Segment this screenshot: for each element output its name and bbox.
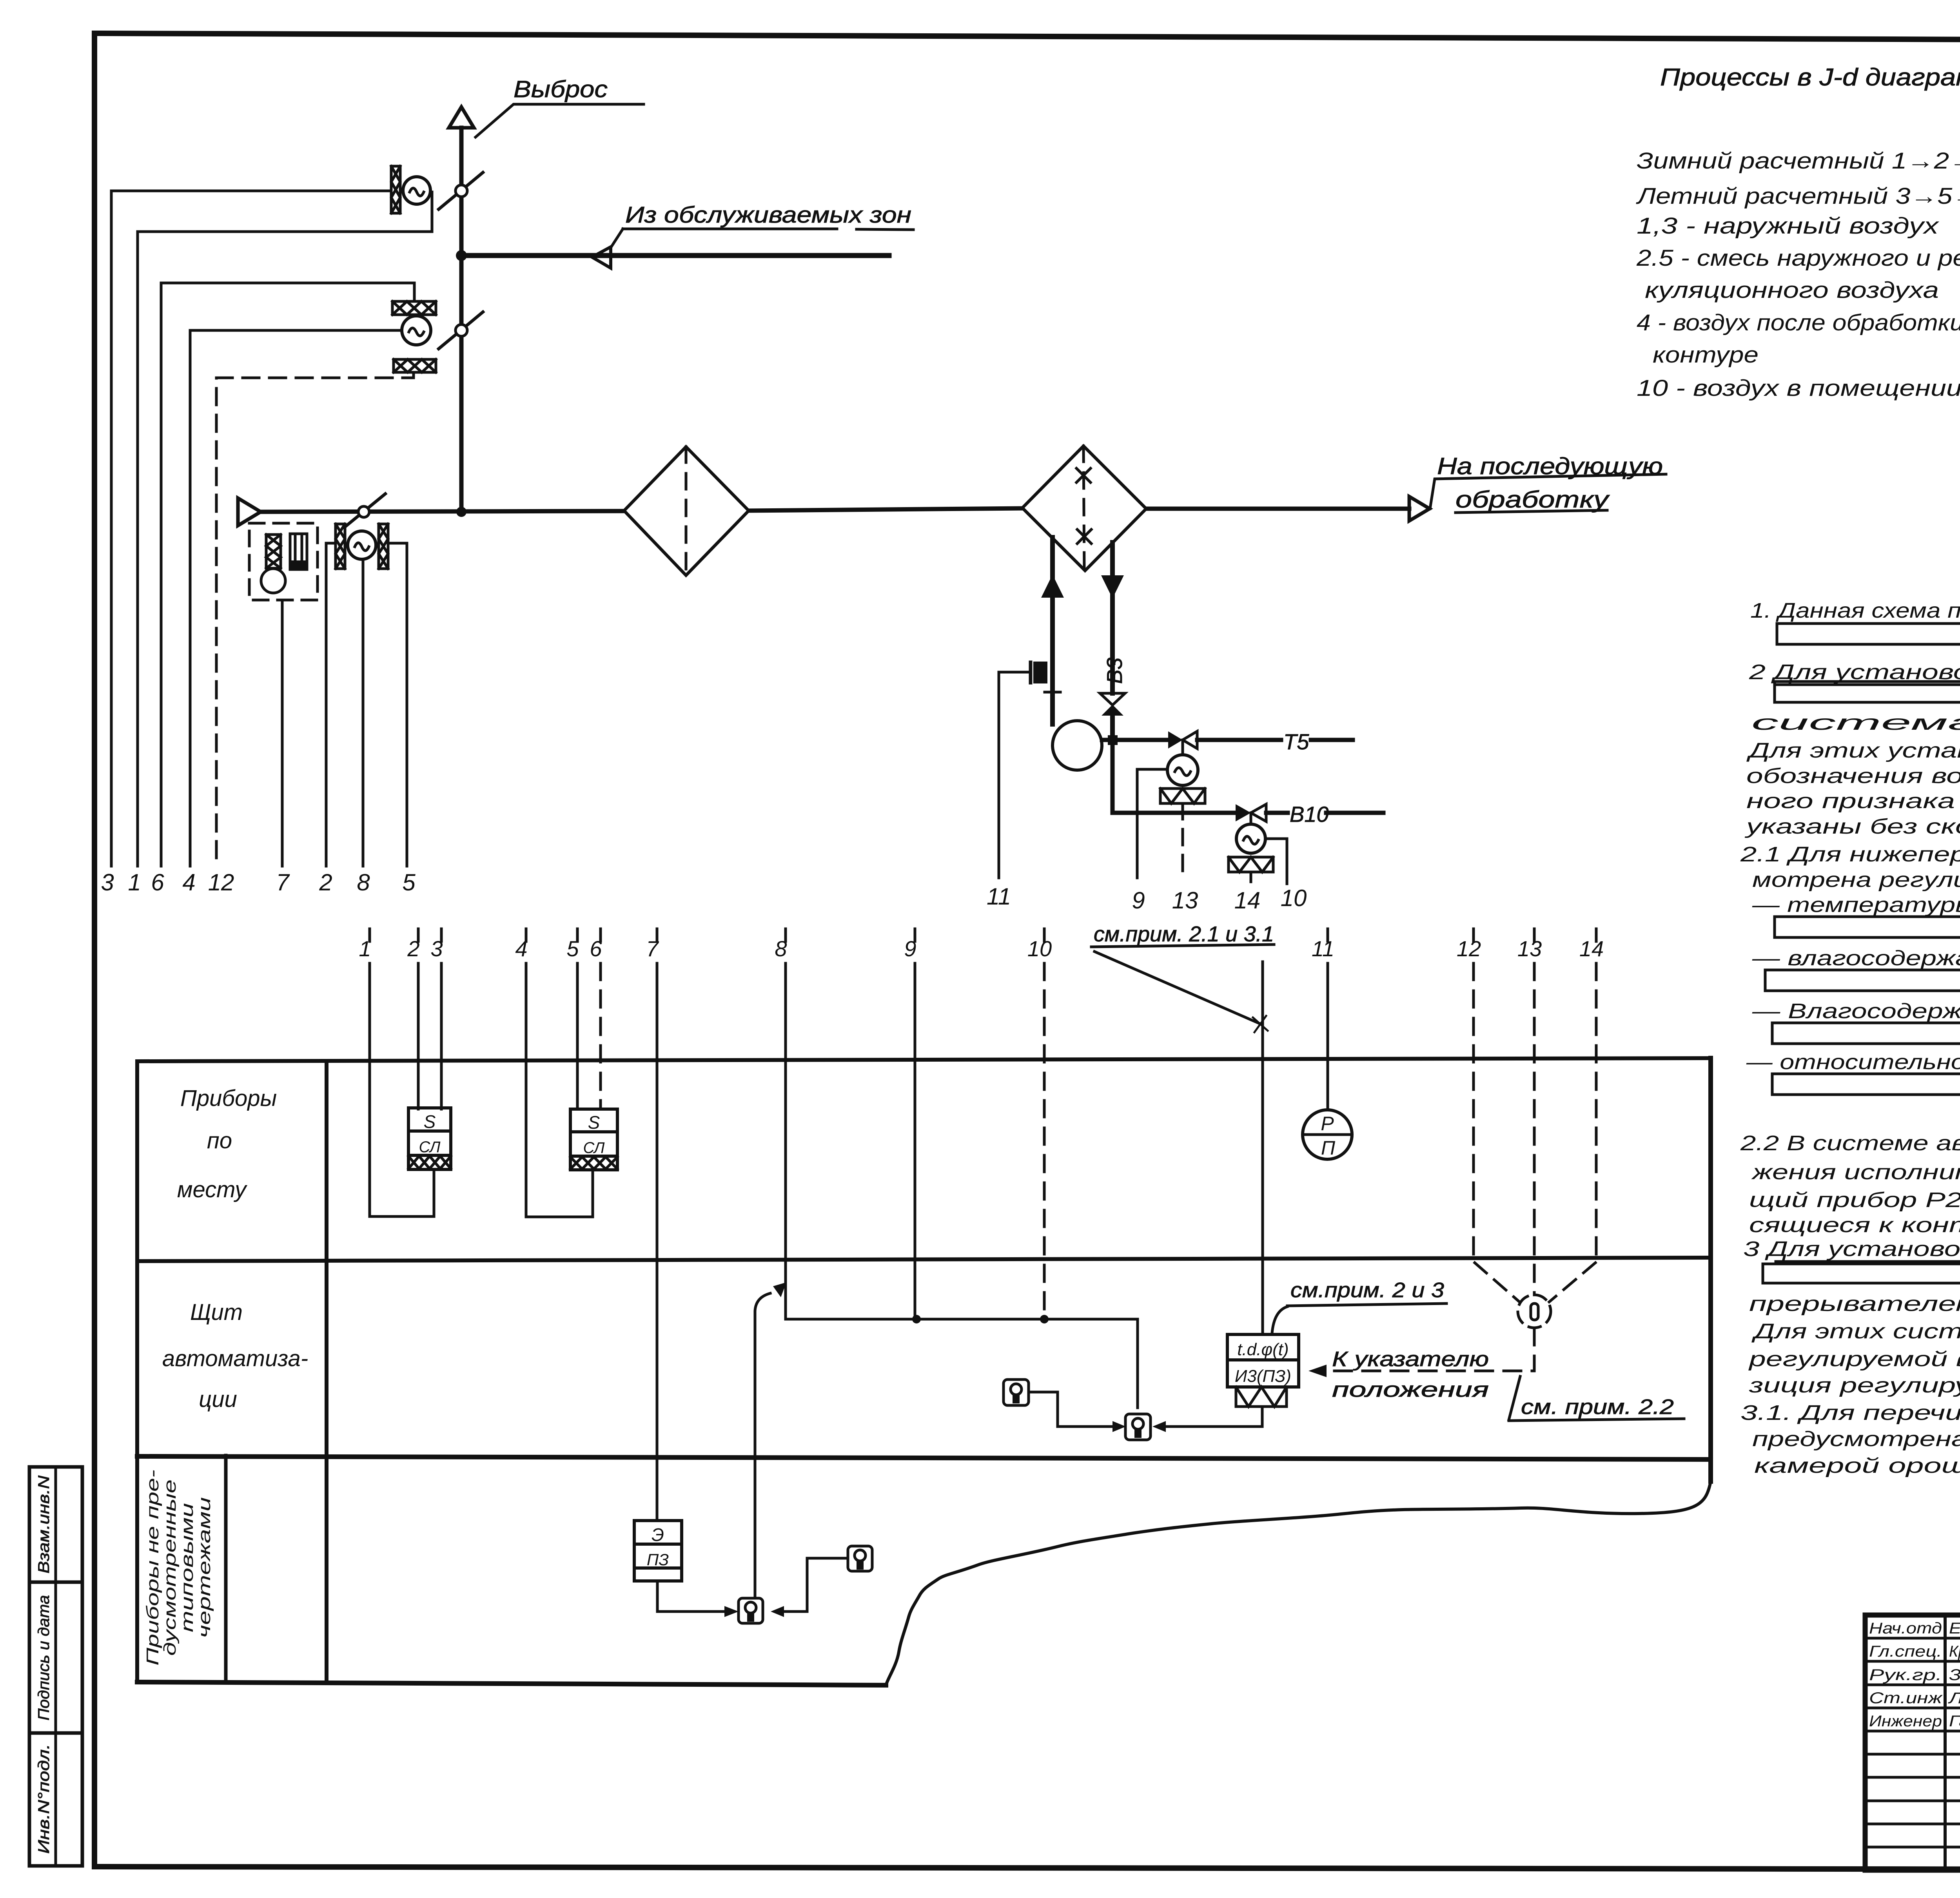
- title block frame: [1865, 1615, 1960, 1870]
- svg-text:2.5 - смесь наружного и рецир-: 2.5 - смесь наружного и рецир-: [1636, 245, 1960, 271]
- svg-text:t.d.φ(t): t.d.φ(t): [1237, 1340, 1289, 1359]
- svg-text:П: П: [1321, 1137, 1336, 1159]
- wire 9: [1137, 769, 1167, 878]
- thermometer symbol: [261, 535, 285, 593]
- svg-text:обозначения возможных регулиру: обозначения возможных регулируемых велич…: [1746, 764, 1960, 788]
- selector relay B: [1125, 1414, 1151, 1440]
- dashed line to position pointer: [1328, 1328, 1534, 1371]
- svg-text:дусмотренные: дусмотренные: [160, 1479, 180, 1656]
- svg-text:3 Для установок кондициониров: 3 Для установок кондиционирования: [1743, 1237, 1960, 1261]
- temperature sensor in chamber: [1029, 662, 1033, 683]
- wire 14: [1250, 872, 1252, 882]
- damper of exhaust fan: [391, 166, 400, 213]
- wire 13 (dashed): [1181, 803, 1184, 880]
- svg-text:ПЗ: ПЗ: [647, 1550, 669, 1569]
- svg-text:ции: ции: [199, 1387, 237, 1412]
- table frame: [137, 1058, 1711, 1061]
- svg-text:S: S: [588, 1112, 600, 1133]
- regulator feed line: [1261, 962, 1264, 1334]
- local panel SL box 1: [408, 1108, 451, 1169]
- local panel SL box 2: [570, 1109, 617, 1170]
- wire 1 to exhaust fan: [138, 192, 432, 866]
- valve 14 actuator: [1236, 824, 1265, 853]
- exhaust discharge triangle (Выброс): [449, 107, 474, 128]
- svg-text:8: 8: [357, 869, 370, 896]
- svg-text:Для этих установок в услов: Для этих установок в условном изображени…: [1746, 739, 1960, 762]
- column numeral upper stubs: [368, 929, 371, 941]
- recirculation fan lower damper: [394, 359, 436, 372]
- return air line Из обслуживаемых зон: [461, 253, 889, 258]
- svg-text:К указателю: К указателю: [1332, 1347, 1489, 1371]
- hook of line 1: [370, 1169, 434, 1216]
- row label Приборы не предусмотренные типовыми чертежами: [143, 1470, 214, 1666]
- svg-text:мотрена регулирование следую: мотрена регулирование следующих параметр…: [1752, 868, 1960, 892]
- svg-text:обработку: обработку: [1455, 486, 1610, 513]
- svg-text:3: 3: [101, 869, 114, 896]
- svg-text:Взам.инв.N: Взам.инв.N: [35, 1476, 53, 1574]
- svg-text:14: 14: [1579, 936, 1604, 961]
- svg-text:10 - воздух в помещении.: 10 - воздух в помещении.: [1637, 375, 1960, 401]
- wire 4: [190, 330, 402, 866]
- svg-text:см.прим. 2 и 3: см.прим. 2 и 3: [1290, 1278, 1444, 1302]
- wire 8: [362, 559, 365, 866]
- svg-text:— Влагосодержания в обслуживае: — Влагосодержания в обслуживаемой зоне, …: [1752, 999, 1960, 1023]
- svg-text:СЛ: СЛ: [419, 1138, 441, 1156]
- supply fan right damper: [379, 524, 388, 569]
- svg-text:Р: Р: [1321, 1113, 1334, 1135]
- wire 12 (dashed): [216, 372, 414, 866]
- supply fan M3: [348, 531, 376, 559]
- svg-text:4 - воздух после обработки в 1: 4 - воздух после обработки в 1: [1637, 310, 1960, 335]
- svg-text:щий прибор Р25.1.2 индикатору.: щий прибор Р25.1.2 индикатору. На схеме …: [1749, 1188, 1960, 1212]
- side stamp box: [29, 1467, 82, 1866]
- main duct to filter: [261, 511, 624, 512]
- svg-text:регулируемой величины и функ: регулируемой величины и функционального …: [1748, 1347, 1960, 1371]
- svg-text:типовыми: типовыми: [178, 1503, 197, 1632]
- svg-text:Зингерман: Зингерман: [1949, 1666, 1960, 1684]
- svg-text:Гл.спец.: Гл.спец.: [1869, 1643, 1942, 1660]
- svg-text:— влагосодержания за камерой о: — влагосодержания за камерой орошения, у…: [1752, 946, 1960, 970]
- svg-text:сящиеся к контролю положени: сящиеся к контролю положения, показаны ш…: [1749, 1213, 1960, 1237]
- svg-text:ного признака , а также позици: ного признака , а также позиция регулиру…: [1746, 789, 1960, 813]
- svg-text:И3(ПЗ): И3(ПЗ): [1235, 1367, 1291, 1386]
- svg-text:Приборы не пре-: Приборы не пре-: [143, 1470, 162, 1666]
- svg-text:Зимний расчетный 1→2→4: Зимний расчетный 1→2→4: [1637, 148, 1960, 174]
- svg-text:4: 4: [182, 869, 195, 896]
- junction node T5 line: [1108, 735, 1118, 745]
- svg-text:Из обслуживаемых зон: Из обслуживаемых зон: [625, 202, 911, 228]
- svg-text:10: 10: [1281, 885, 1307, 911]
- recirculation fan M2: [402, 316, 431, 345]
- relay C: [739, 1598, 763, 1623]
- wire 10: [1265, 839, 1287, 884]
- svg-text:9: 9: [1132, 887, 1145, 914]
- duct to further treatment: [1146, 507, 1409, 511]
- svg-text:Инженер: Инженер: [1869, 1713, 1942, 1730]
- duct filter to spray chamber: [749, 508, 1022, 511]
- svg-text:В3: В3: [1102, 657, 1127, 684]
- svg-text:— температуры воздуха за камер: — температуры воздуха за камерой орошени…: [1752, 893, 1960, 917]
- junction node on main duct: [456, 507, 466, 517]
- wire relay A to relay B: [1029, 1392, 1120, 1427]
- supply fan left damper: [336, 524, 345, 569]
- svg-text:1. Данная схема применена для: 1. Данная схема применена для следующих …: [1750, 599, 1960, 622]
- svg-text:система автоматизации: система автоматизации 1 класса.: [1751, 711, 1960, 734]
- svg-text:Гаршенино: Гаршенино: [1949, 1713, 1960, 1730]
- svg-text:2.2 В системе автоматизации 1: 2.2 В системе автоматизации 1 класса пре…: [1740, 1131, 1960, 1155]
- swing damper on recirculation duct: [439, 312, 483, 349]
- svg-text:автоматиза-: автоматиза-: [162, 1346, 308, 1371]
- svg-text:Подпись и дата: Подпись и дата: [35, 1595, 53, 1720]
- svg-text:см.прим. 2.1 и 3.1: см.прим. 2.1 и 3.1: [1094, 922, 1274, 946]
- position feedback indicator И: [1518, 1295, 1551, 1328]
- swing damper on exhaust duct: [439, 172, 483, 209]
- svg-text:жения исполнительных механизмо: жения исполнительных механизмов по встро…: [1751, 1160, 1960, 1184]
- row label Щит автоматизации: [162, 1300, 308, 1412]
- position indicator P/П: [1303, 1110, 1352, 1159]
- table column numerals: [359, 936, 1604, 961]
- control valve 13 on T5: [1168, 731, 1183, 749]
- svg-text:Рук.гр.: Рук.гр.: [1869, 1666, 1942, 1684]
- svg-text:1,3 - наружный воздух: 1,3 - наружный воздух: [1637, 213, 1940, 239]
- wire relay D to relay C: [784, 1558, 848, 1612]
- dashed leads 12,13,14 to indicator: [1475, 1263, 1519, 1301]
- heating water line T5: [1102, 738, 1168, 742]
- svg-text:контуре: контуре: [1653, 342, 1759, 368]
- remote setpoint Э/ПЗ box: [634, 1521, 682, 1581]
- signature grid: [1944, 1615, 1947, 1870]
- svg-text:— относительной влажности в об: — относительной влажности в обслуживаемо…: [1746, 1050, 1960, 1074]
- svg-text:11: 11: [987, 883, 1011, 910]
- wire Э/ПЗ to relay C: [657, 1581, 724, 1612]
- svg-text:В10: В10: [1290, 802, 1329, 827]
- svg-text:зиция регулирующего прибора: зиция регулирующего прибора указаны в ск…: [1749, 1374, 1960, 1397]
- svg-text:6: 6: [151, 869, 164, 896]
- svg-text:Евтушенко: Евтушенко: [1949, 1620, 1960, 1637]
- valve 13 actuator: [1167, 755, 1198, 785]
- svg-text:прерывателем — система автома: прерывателем — система автоматизации 2 к…: [1749, 1292, 1960, 1316]
- svg-text:14: 14: [1234, 887, 1261, 914]
- exhaust duct vertical: [459, 128, 464, 512]
- svg-text:месту: месту: [177, 1177, 247, 1202]
- blank fill-in boxes of notes: [1777, 624, 1960, 644]
- svg-text:Э: Э: [652, 1525, 664, 1545]
- svg-text:по: по: [207, 1128, 232, 1153]
- wire 2: [326, 543, 336, 866]
- svg-text:Для этих систем в условном: Для этих систем в условном изображении р…: [1751, 1320, 1960, 1343]
- check valve on drain riser: [1100, 693, 1125, 705]
- exhaust fan M1: [403, 177, 430, 204]
- svg-text:5: 5: [402, 869, 416, 896]
- svg-text:Красташевск: Красташевск: [1949, 1643, 1960, 1660]
- junction node (return air tee): [456, 250, 467, 261]
- svg-text:2: 2: [319, 869, 332, 896]
- svg-text:Процессы в J-d диаграмме: Процессы в J-d диаграмме: [1660, 64, 1960, 91]
- underline item 3 lead-in: [1776, 1260, 1960, 1263]
- svg-text:камерой орошения. Позиция д: камерой орошения. Позиция датчика: [1754, 1454, 1960, 1477]
- panel bus line: [786, 1319, 1138, 1408]
- svg-text:1: 1: [128, 869, 141, 896]
- svg-text:см. прим. 2.2: см. прим. 2.2: [1521, 1395, 1674, 1419]
- svg-text:11: 11: [1312, 936, 1334, 961]
- wire regulator to relay B: [1157, 1407, 1262, 1427]
- svg-text:13: 13: [1172, 887, 1198, 914]
- spray chamber (diamond): [1022, 446, 1146, 571]
- legend text: [1635, 148, 1960, 401]
- filter (diamond): [624, 447, 749, 575]
- spray water supply riser: [1050, 537, 1055, 724]
- svg-text:указаны без скобак.: указаны без скобак.: [1744, 815, 1960, 838]
- row label Приборы по месту: [177, 1086, 277, 1202]
- svg-text:предусмотрена регулирование: предусмотрена регулирование температуры …: [1752, 1427, 1960, 1451]
- wire 11: [999, 672, 1031, 878]
- regulator Р25.1.2 box: [1227, 1334, 1299, 1387]
- svg-text:Инв.N°подл.: Инв.N°подл.: [35, 1744, 53, 1854]
- leader numerals of field wires: [101, 869, 1307, 914]
- position selector relay A: [1004, 1380, 1029, 1405]
- svg-text:куляционного воздуха: куляционного воздуха: [1645, 277, 1939, 303]
- svg-text:Летний расчетный 3→5→4: Летний расчетный 3→5→4: [1635, 183, 1960, 209]
- svg-text:10: 10: [1027, 936, 1052, 961]
- svg-text:13: 13: [1517, 936, 1542, 961]
- svg-text:Щит: Щит: [190, 1300, 243, 1325]
- humidifier water line B10: [1112, 740, 1236, 813]
- svg-text:СЛ: СЛ: [583, 1139, 605, 1157]
- hook of line 4: [526, 1170, 593, 1217]
- svg-text:12: 12: [1457, 936, 1481, 961]
- relay D: [848, 1546, 872, 1571]
- spray pump: [1053, 721, 1102, 770]
- wire 3 to exhaust fan damper: [111, 191, 391, 866]
- wire 5: [388, 543, 407, 866]
- local instruments dashed enclosure: [249, 523, 318, 600]
- recirculation fan upper damper: [392, 301, 436, 315]
- svg-text:Лазаренко: Лазаренко: [1947, 1690, 1960, 1707]
- svg-text:чертежами: чертежами: [195, 1497, 214, 1638]
- break (wavy) line: [886, 1481, 1711, 1685]
- svg-text:2.1 Для нижеперечисленных уст: 2.1 Для нижеперечисленных установок конд…: [1740, 843, 1960, 866]
- column lead lines: [368, 963, 371, 1216]
- svg-text:Выброс: Выброс: [514, 76, 608, 102]
- svg-text:Приборы: Приборы: [180, 1086, 277, 1111]
- hygrometer symbol: [290, 534, 307, 569]
- wire 7 from instruments: [281, 600, 284, 866]
- svg-text:Ст.инж: Ст.инж: [1869, 1690, 1943, 1707]
- svg-text:12: 12: [208, 869, 234, 896]
- outdoor air intake triangle: [238, 498, 261, 526]
- swing damper on intake duct: [344, 494, 385, 528]
- svg-text:положения: положения: [1332, 1378, 1489, 1401]
- wire to relay of line 8: [755, 1293, 770, 1598]
- underline item 2 lead-in: [1776, 683, 1960, 686]
- svg-text:Нач.отд: Нач.отд: [1869, 1620, 1942, 1637]
- svg-text:S: S: [424, 1111, 436, 1132]
- svg-text:Т5: Т5: [1283, 729, 1309, 754]
- drain riser B3: [1110, 542, 1115, 693]
- svg-text:3.1. Для перечисленных в пу: 3.1. Для перечисленных в пункте 3 устано…: [1740, 1401, 1960, 1425]
- wire 6: [161, 283, 414, 866]
- control valve 14 on B10: [1236, 804, 1251, 821]
- svg-text:7: 7: [276, 869, 290, 896]
